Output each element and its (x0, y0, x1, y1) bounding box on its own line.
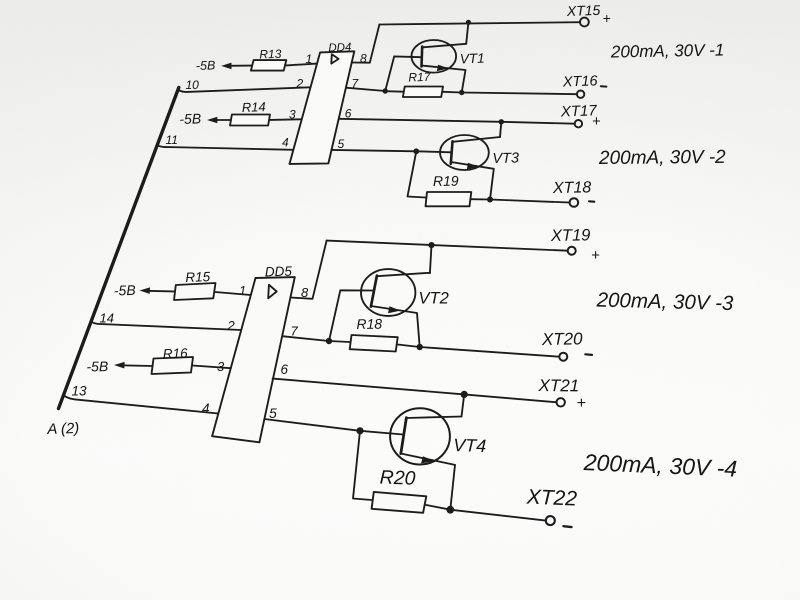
svg-text:XT16: XT16 (562, 73, 599, 90)
VT1 emitter lead (422, 66, 466, 93)
wire DD4 pin 5 to node D5 (332, 150, 417, 151)
wire bus tap 10 to DD4 pin 2 (179, 87, 310, 92)
node VT1 base junction D2 (383, 88, 388, 93)
minus sign XT22 (564, 525, 572, 528)
VT2 emitter arrow (388, 306, 401, 313)
terminal XT20 (559, 353, 567, 361)
wire D12 to terminal XT22 (450, 510, 546, 521)
resistor R17 (403, 87, 443, 98)
wire D9 to terminal XT20 (420, 347, 560, 357)
VT2 collector lead (377, 273, 430, 276)
wire bus tap 14 to DD5 pin 2 (91, 322, 242, 331)
svg-text:3: 3 (289, 108, 296, 122)
terminal XT21 (557, 398, 565, 406)
minus sign XT20 (585, 353, 592, 356)
resistor R13 (251, 60, 286, 71)
svg-text:6: 6 (345, 107, 352, 121)
resistor R18 (350, 335, 398, 352)
wire top rail to terminal XT15 (379, 22, 580, 24)
minus sign XT16 (601, 85, 607, 87)
svg-text:A (2): A (2) (46, 420, 80, 438)
svg-text:6: 6 (281, 362, 289, 377)
wire R13 to DD4 pin 1 (286, 64, 317, 66)
wire D10 to terminal XT21 (464, 394, 557, 402)
svg-text:XT15: XT15 (566, 2, 601, 19)
wire VT1 collector riser (466, 22, 468, 43)
svg-text:5: 5 (269, 405, 277, 421)
svg-text:+: + (603, 10, 611, 26)
node VT3 emitter junction D6 (487, 197, 493, 203)
wire -5V arrow row1 tail (228, 65, 251, 67)
svg-text:-5В: -5В (86, 358, 108, 374)
VT4 base bar (401, 418, 407, 454)
wire VT2 collector riser (430, 245, 432, 273)
VT3 emitter arrow (467, 163, 479, 170)
wire VT1 base riser (385, 56, 421, 91)
wire DD5 pin 8 jog up to XT19 rail (291, 241, 327, 299)
svg-text:7: 7 (291, 324, 299, 339)
arrow -5V row4 head (114, 362, 125, 369)
svg-text:1: 1 (306, 52, 313, 66)
svg-text:VT3: VT3 (492, 151, 519, 167)
wire DD4 pin 6 to node D4 (339, 119, 502, 122)
VT4 emitter arrow (421, 456, 435, 463)
wire VT3 collector riser (500, 122, 501, 137)
svg-text:200mA, 30V -2: 200mA, 30V -2 (598, 147, 726, 169)
wire R19 right to node D6 (471, 198, 490, 200)
svg-text:5: 5 (338, 137, 345, 151)
svg-text:R17: R17 (408, 70, 432, 85)
svg-text:-5В: -5В (114, 282, 136, 299)
VT4 emitter lead (401, 454, 455, 510)
svg-text:R13: R13 (259, 47, 282, 62)
svg-text:2: 2 (227, 318, 236, 333)
svg-text:2: 2 (296, 77, 304, 91)
wire DD5 pin 7 to node D8 (282, 336, 329, 341)
VT3 base bar (451, 141, 453, 164)
wire D6 to terminal XT18 (490, 200, 570, 203)
VT1 base bar (420, 47, 423, 67)
wire rail to terminal XT19 (327, 241, 568, 251)
resistor R20 (372, 492, 427, 513)
svg-text:R15: R15 (185, 269, 211, 285)
wire R17 right to node D3 (443, 91, 462, 94)
svg-text:XT21: XT21 (537, 376, 579, 395)
terminal XT18 (570, 198, 579, 207)
svg-text:XT19: XT19 (550, 226, 591, 245)
node VT3 base junction D5 (413, 148, 419, 154)
node VT2 base junction D8 (326, 338, 332, 344)
VT3 collector lead (453, 137, 501, 142)
svg-text:R16: R16 (163, 346, 189, 362)
wire D2 to R17 left (385, 90, 403, 93)
transistor VT3 body circle (440, 135, 489, 170)
svg-text:+: + (592, 114, 600, 130)
svg-text:200mA, 30V -1: 200mA, 30V -1 (610, 41, 725, 62)
VT3 emitter lead (451, 162, 494, 200)
wire R16 to DD5 pin 3 (193, 366, 231, 369)
svg-text:4: 4 (202, 401, 210, 416)
svg-text:VT4: VT4 (453, 435, 487, 456)
svg-text:R18: R18 (356, 316, 382, 332)
wire D3 to terminal XT16 (462, 93, 577, 95)
svg-text:4: 4 (282, 136, 289, 150)
wire VT2 base riser (329, 290, 373, 341)
arrow -5V row2 head (207, 117, 217, 124)
wire -5V arrow row4 tail (121, 364, 153, 367)
wire DD4 pin 8 jog up to top rail (352, 25, 380, 63)
svg-text:10: 10 (186, 78, 200, 92)
VT2 emitter lead (371, 306, 420, 347)
wire bus tap 11 to DD4 pin 4 (157, 145, 293, 150)
node VT2 collector junction D7 (428, 242, 434, 248)
wire -5V arrow row2 tail (214, 119, 231, 121)
node VT4 base junction D11 (356, 427, 363, 434)
node VT4 emitter junction D12 (446, 506, 454, 514)
svg-text:13: 13 (72, 384, 88, 399)
wire D8 to R18 left (329, 341, 350, 342)
svg-text:VT2: VT2 (419, 290, 449, 308)
wire D11 to VT4 base (360, 431, 403, 435)
wire VT4 collector riser (462, 394, 465, 416)
wire R18 right to node D9 (398, 345, 420, 348)
wire D11 down to R20 left (353, 431, 372, 500)
node VT4 collector junction D10 (461, 391, 468, 398)
VT2 base bar (371, 276, 377, 307)
svg-text:8: 8 (360, 52, 367, 66)
svg-text:R19: R19 (433, 173, 459, 189)
wire D5 to VT3 base (416, 151, 451, 152)
transistor VT4 body circle (390, 408, 450, 464)
terminal XT22 (546, 516, 555, 525)
svg-text:3: 3 (217, 359, 225, 374)
svg-text:200mA, 30V -3: 200mA, 30V -3 (595, 288, 734, 315)
wire -5V arrow row3 tail (146, 290, 175, 293)
resistor R14 (230, 115, 270, 126)
node VT2 emitter junction D9 (417, 344, 423, 350)
VT4 collector lead (406, 417, 461, 419)
svg-text:R20: R20 (379, 467, 416, 490)
transistor VT1 body circle (412, 40, 457, 73)
svg-text:+: + (591, 247, 600, 264)
labels (166, 2, 727, 197)
wire bus tap 13 to DD5 pin 4 (63, 395, 218, 414)
terminal XT16 (577, 91, 584, 98)
IC DD5 body (212, 277, 295, 442)
wire R15 to DD5 pin 1 (215, 292, 251, 295)
svg-text:VT1: VT1 (460, 51, 485, 67)
wire DD5 pin 5 to node D11 (264, 419, 360, 431)
svg-text:11: 11 (166, 133, 178, 147)
wire DD5 pin 6 to node D10 (273, 379, 465, 395)
svg-text:XT20: XT20 (541, 329, 584, 349)
bus A thick slanted group line (59, 88, 179, 409)
resistor R19 (426, 192, 472, 206)
node VT1 collector junction on XT15 rail (466, 20, 471, 25)
svg-text:XT18: XT18 (552, 179, 592, 197)
svg-text:8: 8 (301, 285, 309, 300)
terminal XT19 (568, 247, 576, 255)
resistor R15 (174, 283, 216, 300)
DD5 amplifier triangle symbol (268, 285, 277, 299)
wire R20 right to node D12 (426, 505, 450, 510)
resistor R16 (152, 357, 194, 374)
DD4 amplifier triangle symbol (331, 54, 338, 63)
terminal XT15 (580, 18, 589, 27)
wire R14 to DD4 pin 3 (270, 118, 302, 121)
svg-text:200mA, 30V -4: 200mA, 30V -4 (582, 449, 737, 482)
arrow -5V row3 head (140, 287, 151, 294)
wire D5 down to R19 left (408, 151, 426, 197)
svg-text:XT22: XT22 (525, 485, 577, 510)
arrow -5V row1 head (221, 63, 231, 70)
svg-text:14: 14 (100, 311, 114, 326)
IC DD4 body (290, 51, 355, 164)
node VT1 emitter junction D3 (459, 90, 464, 95)
node VT3 collector junction D4 (499, 119, 504, 124)
svg-text:-5В: -5В (196, 58, 216, 73)
minus sign XT18 (589, 200, 594, 202)
transistor VT2 body circle (361, 269, 415, 316)
VT1 emitter arrow (437, 65, 449, 72)
wire DD4 pin 7 to node D2 (346, 88, 385, 91)
svg-text:DD5: DD5 (265, 264, 293, 280)
svg-text:1: 1 (239, 283, 246, 298)
svg-text:R14: R14 (242, 99, 266, 115)
svg-text:+: + (577, 395, 586, 412)
wire D4 to terminal XT17 (501, 122, 575, 124)
svg-text:DD4: DD4 (328, 42, 351, 55)
VT1 collector lead (423, 44, 466, 48)
svg-text:-5В: -5В (179, 110, 201, 127)
terminal XT17 (575, 120, 582, 127)
